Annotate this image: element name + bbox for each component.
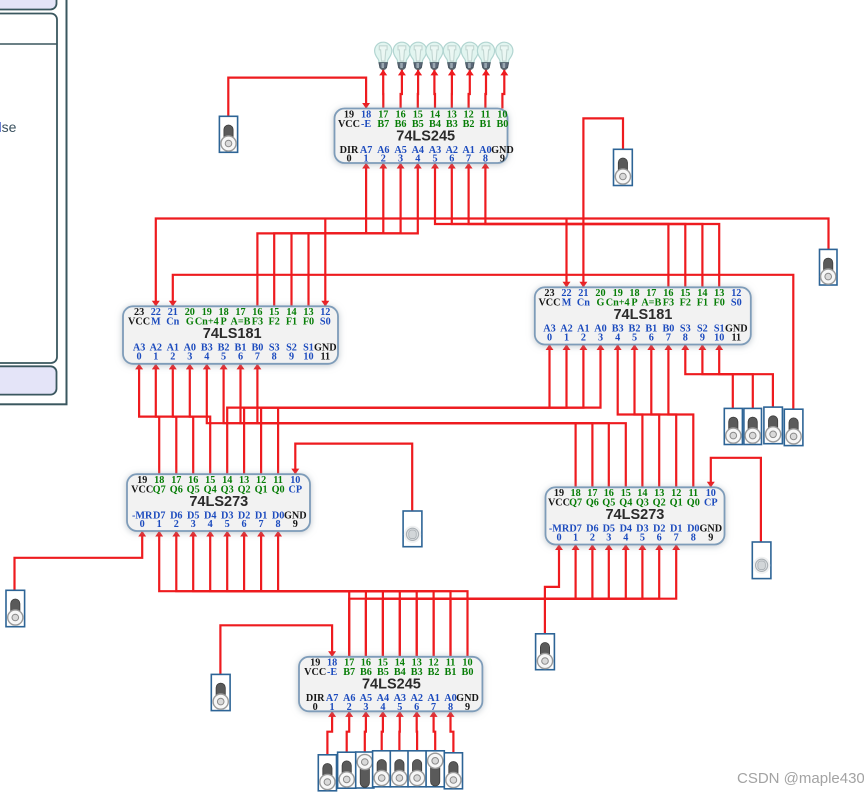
- svg-text:B1: B1: [445, 667, 457, 678]
- wire data switch SD3 to U6 pin5 A3: [398, 711, 401, 751]
- svg-text:0: 0: [556, 532, 561, 543]
- svg-text:3: 3: [598, 332, 603, 343]
- wire Cn bus from switch S-Cn1 to U2 pin21 Cn: [173, 275, 794, 409]
- svg-text:0: 0: [140, 519, 145, 530]
- svg-text:F0: F0: [303, 317, 314, 328]
- svg-text:Q6: Q6: [586, 498, 599, 509]
- wire U6 B6 to U4 pin2 D6: [176, 531, 366, 657]
- svg-text:3: 3: [606, 532, 611, 543]
- wire data switch SD1 to U6 pin7 A1: [434, 711, 436, 751]
- wire switch S-E2 to U6 pin18 -E: [220, 625, 332, 674]
- svg-text:11: 11: [731, 332, 741, 343]
- wire U6 B1 to U5 pin7 D1: [451, 545, 677, 657]
- svg-text:6: 6: [657, 532, 662, 543]
- svg-text:2: 2: [174, 519, 179, 530]
- wire U3 F1 to U1 pin7 A1: [469, 163, 703, 287]
- svg-text:74LS273: 74LS273: [605, 507, 664, 523]
- wire U6 B2 to U5 pin6 D2: [434, 545, 660, 657]
- svg-text:8: 8: [276, 519, 281, 530]
- svg-text:7: 7: [431, 702, 436, 713]
- wire U2 F1 to U1 pin3 A5: [292, 163, 401, 306]
- wire pushbutton PB2 to U5 pin10 CP: [711, 458, 761, 542]
- wire U4 Q4 to U2 pin3 A0: [190, 364, 210, 474]
- svg-text:CP: CP: [704, 498, 718, 509]
- svg-text:Q6: Q6: [170, 485, 183, 496]
- wire U5 Q0 to U3 pin7 B0: [668, 345, 693, 488]
- wire data switch SD4 to U6 pin4 A4: [382, 711, 383, 751]
- IC chip U1 74LS245: [335, 109, 514, 165]
- svg-text:B7: B7: [343, 667, 355, 678]
- svg-text:Cn: Cn: [166, 317, 179, 328]
- svg-text:4: 4: [415, 154, 420, 165]
- svg-text:VCC: VCC: [538, 298, 560, 309]
- indicator lamp L8: [496, 42, 513, 70]
- svg-text:7: 7: [255, 351, 260, 362]
- svg-text:1: 1: [330, 702, 335, 713]
- svg-text:B2: B2: [463, 119, 475, 130]
- svg-text:0: 0: [547, 332, 552, 343]
- svg-text:2: 2: [170, 351, 175, 362]
- svg-text:9: 9: [500, 154, 505, 165]
- wire U6 B2 to U4 pin6 D2: [244, 531, 434, 657]
- indicator lamp L4: [426, 42, 443, 70]
- svg-text:3: 3: [363, 702, 368, 713]
- IC chip U4 74LS273: [127, 474, 310, 531]
- svg-text:8: 8: [272, 351, 277, 362]
- svg-text:M: M: [151, 317, 161, 328]
- svg-text:S0: S0: [731, 298, 742, 309]
- wire U2 F0 to U1 pin4 A4: [309, 163, 418, 306]
- wire data switch SD2 to U6 pin6 A2: [416, 711, 419, 751]
- svg-text:74LS273: 74LS273: [189, 494, 248, 510]
- svg-text:4: 4: [615, 332, 620, 343]
- wire M bus branch to U3 pin22 M: [565, 219, 567, 288]
- toggle switch data switch SD3: [390, 751, 408, 787]
- toggle switch S-S1: [744, 408, 762, 444]
- svg-text:-E: -E: [327, 667, 337, 678]
- wire U1 pin10 B0 to bulb L8: [502, 70, 504, 109]
- indicator lamp L6: [461, 42, 478, 70]
- wire U5 Q6 to U2 pin5 B2: [224, 364, 593, 488]
- wire data switch SD7 to U6 pin1 A7: [327, 711, 332, 755]
- wire U2 F3 to U1 pin1 A7: [257, 163, 366, 306]
- wire U1 pin13 B3 to bulb L5: [451, 70, 453, 109]
- svg-text:0: 0: [137, 351, 142, 362]
- svg-text:Q0: Q0: [272, 485, 285, 496]
- toggle switch data switch SD2: [408, 751, 426, 787]
- wire U2 F2 to U1 pin2 A6: [274, 163, 383, 306]
- svg-text:VCC: VCC: [304, 667, 326, 678]
- svg-text:8: 8: [691, 532, 696, 543]
- wire U6 B3 to U5 pin5 D3: [417, 545, 643, 657]
- indicator lamp L3: [410, 42, 427, 70]
- wire U5 Q7 to U2 pin4 B3: [207, 364, 576, 488]
- svg-text:74LS181: 74LS181: [203, 326, 262, 342]
- svg-text:VCC: VCC: [548, 498, 570, 509]
- svg-text:CSDN @maple430: CSDN @maple430: [737, 770, 864, 787]
- wire switch S-S1 to U3 pin10 S1: [719, 345, 753, 409]
- svg-text:VCC: VCC: [128, 317, 150, 328]
- toggle switch S-S2: [724, 408, 742, 444]
- toggle switch S-MR2 (U5 reset): [536, 634, 555, 670]
- wire data switch SD5 to U6 pin3 A5: [365, 711, 366, 752]
- svg-text:5: 5: [432, 154, 437, 165]
- svg-text:7: 7: [466, 154, 471, 165]
- svg-text:2: 2: [347, 702, 352, 713]
- svg-text:0: 0: [313, 702, 318, 713]
- svg-text:B2: B2: [428, 667, 440, 678]
- svg-text:B0: B0: [496, 119, 508, 130]
- svg-text:10: 10: [303, 351, 313, 362]
- svg-text:1: 1: [364, 154, 369, 165]
- wire M bus from switch SM to U2 pin22 M: [156, 219, 829, 307]
- wire S-E1 to U1 pin18 -E: [228, 78, 366, 117]
- wire U4 Q3 to U3 pin0 A3: [227, 345, 549, 475]
- toggle switch data switch SD6: [338, 752, 356, 788]
- wire U6 B5 to U4 pin3 D5: [193, 531, 383, 657]
- pushbutton switch PB2 (U5 clock): [752, 542, 771, 579]
- svg-text:5: 5: [221, 351, 226, 362]
- svg-text:F1: F1: [286, 317, 297, 328]
- wire data switch SD0 to U6 pin8 A0: [451, 711, 454, 753]
- wire U4 Q2 to U3 pin1 A2: [244, 345, 566, 475]
- svg-text:F0: F0: [714, 298, 725, 309]
- wire U6 B4 to U4 pin4 D4: [210, 531, 400, 657]
- wire switch S-Cn2 to U3 pin21 Cn: [583, 118, 623, 287]
- svg-text:11: 11: [320, 351, 330, 362]
- wire U6 B1 to U4 pin7 D1: [261, 531, 450, 657]
- svg-text:6: 6: [449, 154, 454, 165]
- svg-text:Q7: Q7: [569, 498, 582, 509]
- svg-text:B7: B7: [377, 119, 389, 130]
- wire switch S-MR1 to U4 pin0 -MR: [15, 531, 143, 590]
- svg-text:F2: F2: [680, 298, 691, 309]
- svg-text:S0: S0: [320, 317, 331, 328]
- wire U4 Q7 to U2 pin0 A3: [139, 364, 159, 474]
- wire U4 Q5 to U2 pin2 A1: [173, 364, 193, 474]
- pushbutton switch PB1 (U4 clock): [403, 511, 422, 547]
- svg-text:1: 1: [573, 532, 578, 543]
- svg-text:CP: CP: [289, 485, 303, 496]
- wire U4 Q1 to U3 pin2 A1: [261, 345, 583, 475]
- svg-text:4: 4: [204, 351, 209, 362]
- wire M bus branch to U2 pin12 S0: [324, 219, 326, 307]
- svg-text:74LS181: 74LS181: [613, 307, 672, 323]
- toggle switch S-Cn2 (U3 carry-in): [614, 149, 633, 185]
- svg-text:74LS245: 74LS245: [396, 128, 455, 144]
- indicator lamp L5: [443, 42, 460, 70]
- toggle switch S-Cn1: [784, 409, 803, 445]
- indicator lamp L2: [393, 42, 410, 70]
- wire switch S-MR2 to U5 pin0 -MR: [545, 545, 559, 634]
- svg-text:Cn: Cn: [577, 298, 590, 309]
- wire U1 pin11 B1 to bulb L7: [484, 70, 487, 109]
- svg-text:lse: lse: [0, 119, 17, 135]
- svg-text:4: 4: [623, 532, 628, 543]
- svg-text:M: M: [562, 298, 572, 309]
- indicator lamp L7: [477, 42, 494, 70]
- wire U5 Q4 to U2 pin7 B0: [257, 364, 625, 488]
- IC chip U5 74LS273: [546, 487, 725, 544]
- wire U5 Q1 to U3 pin6 B1: [651, 345, 676, 488]
- wire U4 Q6 to U2 pin1 A2: [156, 364, 177, 474]
- wire U5 Q2 to U3 pin5 B2: [635, 345, 660, 488]
- wire U1 pin12 B2 to bulb L6: [469, 70, 470, 109]
- toggle switch data switch SD7: [318, 755, 336, 791]
- svg-text:9: 9: [708, 532, 713, 543]
- toggle switch S-S3: [764, 407, 783, 444]
- svg-text:7: 7: [666, 332, 671, 343]
- IC chip U3 74LS181: [535, 287, 751, 344]
- toggle switch S-E1 (U1 enable): [219, 116, 237, 152]
- svg-text:4: 4: [380, 702, 385, 713]
- svg-text:2: 2: [381, 154, 386, 165]
- svg-text:VCC: VCC: [338, 119, 360, 130]
- svg-text:5: 5: [225, 519, 230, 530]
- svg-text:6: 6: [414, 702, 419, 713]
- wire U3 F2 to U1 pin6 A2: [452, 163, 686, 287]
- wire U4 Q0 to U3 pin3 A0: [278, 345, 600, 475]
- svg-text:2: 2: [590, 532, 595, 543]
- svg-text:6: 6: [242, 519, 247, 530]
- svg-text:9: 9: [289, 351, 294, 362]
- wire switch S-S3 to U3 pin8 S3: [685, 345, 773, 408]
- svg-text:7: 7: [674, 532, 679, 543]
- wire U1 pin15 B5 to bulb L3: [417, 70, 420, 109]
- svg-text:B1: B1: [479, 119, 491, 130]
- svg-text:F1: F1: [697, 298, 708, 309]
- wire U6 B7 to U5 pin1 D7: [349, 545, 575, 657]
- svg-text:1: 1: [153, 351, 158, 362]
- svg-text:1: 1: [157, 519, 162, 530]
- svg-text:B0: B0: [462, 667, 474, 678]
- svg-text:9: 9: [293, 519, 298, 530]
- svg-text:VCC: VCC: [131, 485, 153, 496]
- wire U1 pin14 B4 to bulb L4: [433, 70, 436, 109]
- svg-text:6: 6: [649, 332, 654, 343]
- indicator lamp L1: [375, 42, 392, 70]
- toggle switch data switch SD4: [373, 751, 391, 787]
- svg-text:Q1: Q1: [670, 498, 683, 509]
- svg-text:8: 8: [448, 702, 453, 713]
- wire U6 B7 to U4 pin1 D7: [159, 531, 349, 657]
- wire U5 Q3 to U3 pin4 B3: [618, 345, 643, 488]
- svg-text:Q1: Q1: [255, 485, 268, 496]
- svg-text:9: 9: [700, 332, 705, 343]
- sidebar panel (component toolbox, clipped at left edge): [0, 0, 67, 404]
- svg-text:4: 4: [208, 519, 213, 530]
- svg-text:5: 5: [632, 332, 637, 343]
- svg-text:F2: F2: [269, 317, 280, 328]
- toggle switch S-E2 (U6 enable): [211, 674, 230, 710]
- toggle switch S-MR1 (U4 reset): [6, 590, 25, 626]
- svg-text:3: 3: [191, 519, 196, 530]
- svg-text:6: 6: [238, 351, 243, 362]
- svg-text:3: 3: [187, 351, 192, 362]
- toggle switch SM (mode M): [820, 249, 838, 285]
- IC chip U2 74LS181: [123, 306, 338, 364]
- wire U3 F0 to U1 pin8 A0: [485, 163, 719, 287]
- wire U3 F3 to U1 pin5 A3: [435, 163, 668, 287]
- svg-text:2: 2: [581, 332, 586, 343]
- svg-text:10: 10: [714, 332, 724, 343]
- wire U6 B0 to U4 pin8 D0: [278, 531, 467, 657]
- svg-text:7: 7: [259, 519, 264, 530]
- svg-text:8: 8: [683, 332, 688, 343]
- svg-text:Q7: Q7: [153, 485, 166, 496]
- svg-text:G: G: [597, 298, 605, 309]
- svg-text:74LS245: 74LS245: [362, 677, 421, 693]
- svg-text:-E: -E: [361, 119, 371, 130]
- wire U5 Q5 to U2 pin6 B1: [241, 364, 609, 488]
- svg-text:8: 8: [483, 154, 488, 165]
- wire U1 pin16 B6 to bulb L2: [401, 70, 402, 109]
- toggle switch data switch SD5: [356, 752, 374, 788]
- svg-text:Q0: Q0: [687, 498, 700, 509]
- svg-text:1: 1: [564, 332, 569, 343]
- wire data switch SD6 to U6 pin2 A6: [347, 711, 350, 752]
- svg-text:9: 9: [465, 702, 470, 713]
- wire switch S-S2 to U3 pin9 S2: [702, 345, 732, 409]
- wire U1 pin17 B7 to bulb L1: [382, 70, 384, 109]
- svg-text:5: 5: [397, 702, 402, 713]
- svg-text:5: 5: [640, 532, 645, 543]
- svg-text:0: 0: [346, 154, 351, 165]
- toggle switch data switch SD0: [444, 753, 462, 789]
- wire U6 B5 to U5 pin3 D5: [383, 545, 609, 657]
- wire U6 B3 to U4 pin5 D3: [227, 531, 417, 657]
- wire pushbutton PB1 to U4 pin10 CP: [295, 444, 412, 511]
- wire U6 B6 to U5 pin2 D6: [366, 545, 593, 657]
- IC chip U6 74LS245: [299, 657, 482, 713]
- toggle switch data switch SD1: [426, 751, 444, 787]
- svg-text:G: G: [186, 317, 194, 328]
- svg-text:3: 3: [398, 154, 403, 165]
- wire U6 B4 to U5 pin4 D4: [400, 545, 626, 657]
